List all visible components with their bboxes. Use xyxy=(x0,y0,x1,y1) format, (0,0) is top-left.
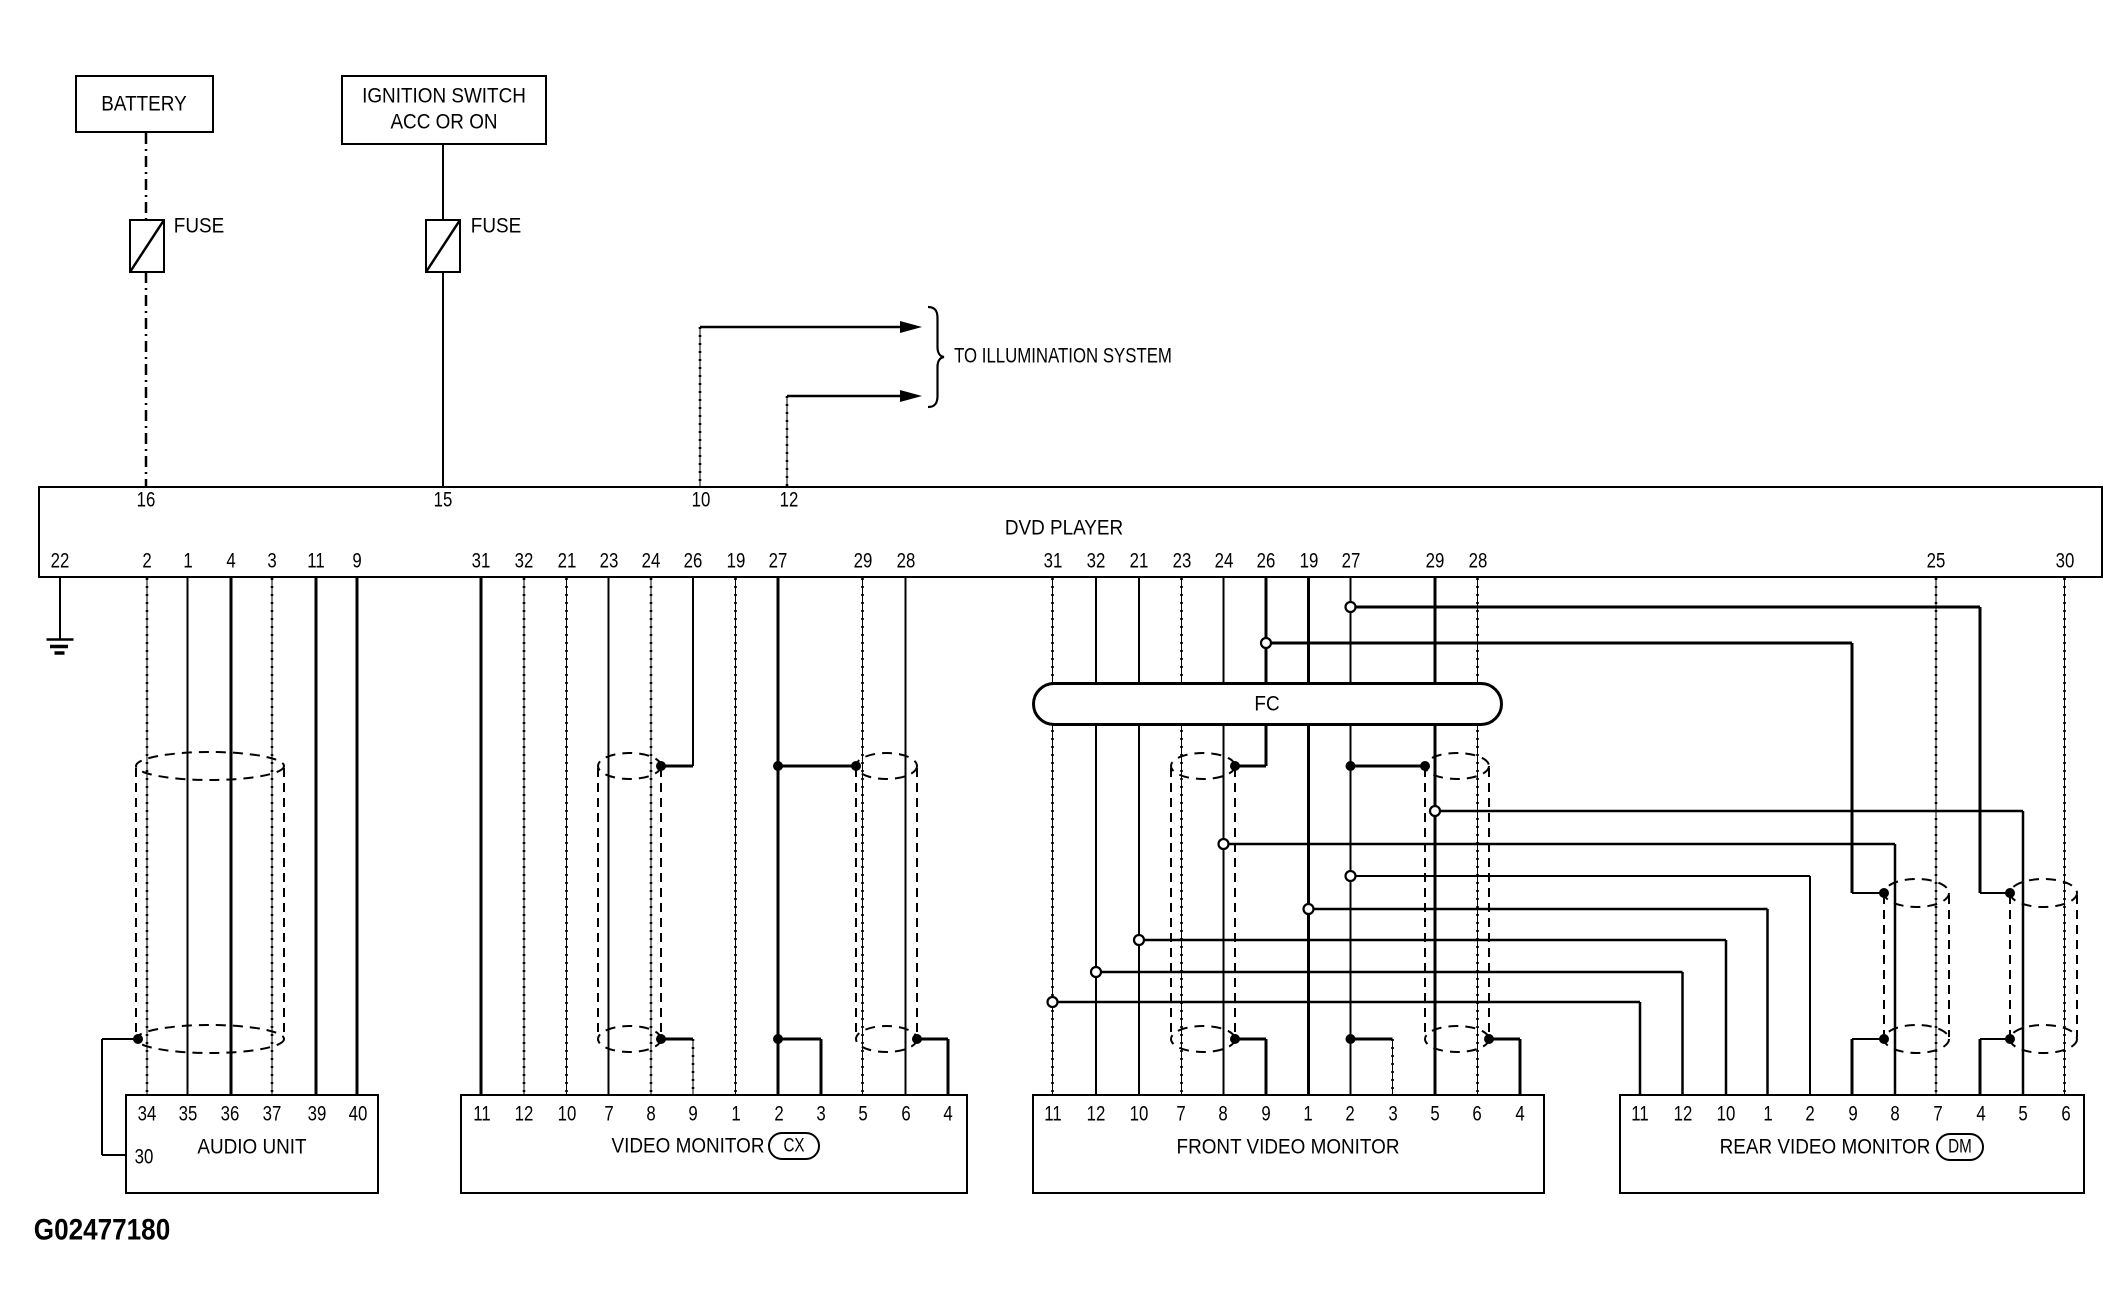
DVD bottom pin 30 xyxy=(2055,551,2074,572)
wire illumination feed 12 xyxy=(786,396,788,486)
audio unit box xyxy=(125,1094,379,1194)
wire front shield top to DVD pin 26 (2nd) xyxy=(1235,765,1266,768)
rear monitor pin 1 xyxy=(1763,1104,1772,1125)
rear monitor pin 4 xyxy=(1976,1104,1985,1125)
wire tap 19 to rear pin 1 xyxy=(1309,908,1768,911)
wire DVD pin 22 to ground xyxy=(59,578,61,639)
connector node on wire 26 (2nd) xyxy=(1261,638,1271,648)
front monitor pin 1 xyxy=(1303,1104,1312,1125)
wire DVD pin 3 to audio pin 37 xyxy=(271,578,273,1094)
DVD bottom pin 32 xyxy=(515,551,534,572)
fuse 2 label xyxy=(471,216,521,237)
video monitor pin 7 xyxy=(604,1104,613,1125)
wire DVD pin 26 (2nd) to front shield node xyxy=(1265,578,1268,766)
wire DVD pin 19 (2nd) to front pin 1 xyxy=(1307,578,1310,1094)
FC bus xyxy=(1032,682,1503,726)
rear monitor pin 12 xyxy=(1673,1104,1692,1125)
wire DVD pin 30 to rear pin 6 xyxy=(2064,578,2066,1094)
DVD bottom pin 23 xyxy=(599,551,618,572)
front monitor pin 2 xyxy=(1345,1104,1354,1125)
connector CX capsule xyxy=(768,1132,820,1160)
front monitor pin 8 xyxy=(1218,1104,1227,1125)
wire DVD pin 25 to rear pin 7 xyxy=(1935,578,1937,1094)
video monitor pin 8 xyxy=(646,1104,655,1125)
shielded cable (rear 5/6) xyxy=(2010,879,2077,1053)
wire tap drop to rear pin 1 xyxy=(1766,909,1769,1094)
rear monitor pin 11 xyxy=(1631,1104,1648,1125)
wire branch on 27 to video pin 3 xyxy=(778,1038,821,1041)
junction video shield top xyxy=(656,761,666,771)
DVD bottom pin 3 xyxy=(267,551,276,572)
DVD bottom pin 24 xyxy=(1214,551,1233,572)
audio unit pin 37 xyxy=(263,1104,282,1125)
arrow to illumination system (from pin 10) xyxy=(700,321,922,333)
audio unit pin 40 xyxy=(349,1104,368,1125)
DVD player label xyxy=(1005,518,1123,539)
shielded cable (front 7/8) xyxy=(1171,753,1235,1052)
DVD bottom pin 11 xyxy=(307,551,324,572)
wire tap 27 to rear shield 2 xyxy=(1351,606,1981,609)
fuse 1 label xyxy=(174,216,224,237)
connector node on wire 32 (2nd) xyxy=(1091,967,1101,977)
DVD bottom pin 27 xyxy=(769,551,788,572)
wire tap 32 to rear pin 12 xyxy=(1096,971,1683,974)
wire branch to video pin 3 xyxy=(820,1039,823,1094)
junction audio shield bottom xyxy=(133,1034,143,1044)
DVD bottom pin 31 xyxy=(472,551,491,572)
wire DVD pin 21 (2nd) to front pin 10 xyxy=(1138,578,1140,1094)
DVD bottom pin 19 xyxy=(1299,551,1318,572)
junction video shield bottom xyxy=(656,1034,666,1044)
wire audio drain to pin 30 xyxy=(102,1154,125,1156)
video monitor pin 10 xyxy=(557,1104,576,1125)
wire DVD pin 23 to video pin 7 xyxy=(608,578,610,1094)
rear video monitor label xyxy=(1720,1137,1931,1158)
DVD bottom pin 9 xyxy=(352,551,361,572)
wire front shield 2 bottom to pin 4 drain xyxy=(1489,1038,1520,1041)
DVD bottom pin 26 xyxy=(1257,551,1276,572)
junction front shield 2 bottom xyxy=(1484,1034,1494,1044)
front video monitor label xyxy=(1177,1137,1400,1158)
DVD bottom pin 28 xyxy=(1468,551,1487,572)
DVD bottom pin 25 xyxy=(1927,551,1946,572)
wire tap drop to rear pin 11 xyxy=(1639,1002,1642,1094)
junction rear shield 2 top xyxy=(2005,888,2015,898)
brace for illumination system xyxy=(928,307,944,407)
wire video shield drain to video pin 9 xyxy=(692,1039,694,1094)
video monitor pin 12 xyxy=(515,1104,534,1125)
wire DVD pin 32 (2nd) to front pin 12 xyxy=(1095,578,1097,1094)
junction on wire 27 (2nd) bottom xyxy=(1346,1034,1356,1044)
wire tap drop to rear pin 12 xyxy=(1681,972,1684,1094)
DVD bottom pin 31 xyxy=(1043,551,1062,572)
DVD top pin 16 xyxy=(136,490,155,511)
front monitor pin 10 xyxy=(1129,1104,1148,1125)
video monitor pin 9 xyxy=(688,1104,697,1125)
wire DVD pin 19 to video pin 1 xyxy=(735,578,737,1094)
to illumination system label xyxy=(954,346,1172,367)
connector node on wire 27 (2nd) xyxy=(1346,602,1356,612)
wire tap drop to rear pin 2 xyxy=(1809,876,1811,1094)
DVD top pin 10 xyxy=(692,490,711,511)
shielded cable (front 5/6) xyxy=(1425,753,1489,1052)
wire front shield bottom to pin 9 drain xyxy=(1235,1038,1266,1041)
wire tap drop to rear pin 8 xyxy=(1894,844,1897,1094)
audio unit pin 34 xyxy=(138,1104,157,1125)
shielded cable (rear 8/7) xyxy=(1884,879,1949,1053)
DVD bottom pin 2 xyxy=(142,551,151,572)
wire tap 26 to rear shield xyxy=(1266,642,1852,645)
DVD bottom pin 19 xyxy=(726,551,745,572)
connector node on wire 27 (2nd) lower xyxy=(1346,871,1356,881)
junction front shield 2 top xyxy=(1420,761,1430,771)
DVD top pin 12 xyxy=(779,490,798,511)
fuse 1 (battery feed) xyxy=(130,220,164,272)
ground xyxy=(47,640,74,654)
DVD bottom pin 1 xyxy=(183,551,192,572)
video monitor pin 11 xyxy=(473,1104,490,1125)
wire rear shield 2 drain to rear pin 4 xyxy=(1979,1039,1982,1094)
wire tap 24 to rear pin 8 xyxy=(1224,843,1896,846)
wire DVD pin 29 to video pin 5 xyxy=(862,578,864,1094)
connector DM capsule xyxy=(1936,1133,1984,1161)
junction on wire 27 top xyxy=(773,761,783,771)
DVD bottom pin 22 xyxy=(51,551,70,572)
rear monitor pin 7 xyxy=(1933,1104,1942,1125)
DVD bottom pin 29 xyxy=(1426,551,1445,572)
rear monitor pin 5 xyxy=(2018,1104,2027,1125)
wire tap 29 to rear pin 5 xyxy=(1435,810,2023,813)
audio unit pin 30 xyxy=(135,1147,154,1168)
wire DVD pin 4 to audio pin 36 xyxy=(230,578,233,1094)
wire tap 31 to rear pin 11 xyxy=(1053,1001,1641,1004)
wire DVD pin 9 to audio pin 40 xyxy=(356,578,359,1094)
wire video shield 2 drain to video pin 4 xyxy=(947,1039,950,1094)
wire rear shield 2 bottom link xyxy=(1980,1038,2010,1040)
connector node on wire 21 (2nd) xyxy=(1134,935,1144,945)
rear monitor pin 8 xyxy=(1890,1104,1899,1125)
wire DVD pin 29 (2nd) to front pin 5 xyxy=(1434,578,1437,1094)
figure number G02477180 xyxy=(34,1220,170,1241)
front monitor pin 3 xyxy=(1388,1104,1397,1125)
connector node on wire 19 (2nd) xyxy=(1304,904,1314,914)
rear video monitor box xyxy=(1619,1094,2085,1194)
wire tap 21 to rear pin 10 xyxy=(1139,939,1726,942)
DVD player box xyxy=(38,486,2103,578)
front monitor pin 6 xyxy=(1472,1104,1481,1125)
video monitor pin 6 xyxy=(901,1104,910,1125)
wire DVD pin 31 to video pin 11 xyxy=(480,578,483,1094)
DVD top pin 15 xyxy=(433,490,452,511)
front monitor pin 5 xyxy=(1430,1104,1439,1125)
wire video shield bottom to pin 9 drain xyxy=(661,1038,693,1041)
DVD bottom pin 23 xyxy=(1172,551,1191,572)
connector node on wire 29 (2nd) xyxy=(1430,806,1440,816)
wire DVD pin 28 (2nd) to front pin 6 xyxy=(1477,578,1479,1094)
DVD bottom pin 29 xyxy=(853,551,872,572)
junction front shield bottom xyxy=(1230,1034,1240,1044)
fuse 2 (ignition feed) xyxy=(426,220,460,272)
wire tap drop to rear pin 10 xyxy=(1725,940,1728,1094)
wire rear shield drain to rear pin 9 xyxy=(1851,1039,1854,1094)
wire rear shield top link xyxy=(1852,892,1884,894)
junction on wire 27 bottom xyxy=(773,1034,783,1044)
wire DVD pin 27 (2nd) to front pin 2 xyxy=(1350,578,1352,1094)
junction front shield top xyxy=(1230,761,1240,771)
front monitor pin 9 xyxy=(1261,1104,1270,1125)
DVD bottom pin 24 xyxy=(642,551,661,572)
wire DVD pin 24 to video pin 8 xyxy=(650,578,652,1094)
wire front shield 2 drain to front pin 4 xyxy=(1519,1039,1522,1094)
wire DVD pin 31 (2nd) to front pin 11 xyxy=(1052,578,1054,1094)
junction video shield 2 bottom xyxy=(912,1034,922,1044)
front monitor pin 7 xyxy=(1176,1104,1185,1125)
DVD bottom pin 28 xyxy=(896,551,915,572)
wire DVD pin 28 to video pin 6 xyxy=(905,578,907,1094)
shielded cable (audio unit) xyxy=(136,752,284,1053)
wire rear shield 2 top drop xyxy=(1979,607,1982,893)
wire rear shield 2 top link xyxy=(1980,892,2010,894)
rear monitor pin 9 xyxy=(1848,1104,1857,1125)
rear monitor pin 10 xyxy=(1717,1104,1736,1125)
connector node on wire 31 (2nd) xyxy=(1048,997,1058,1007)
DVD bottom pin 21 xyxy=(557,551,576,572)
wire rear shield bottom link xyxy=(1852,1038,1884,1040)
wire DVD pin 21 to video pin 10 xyxy=(566,578,568,1094)
video monitor pin 3 xyxy=(816,1104,825,1125)
shielded cable (video 5/6) xyxy=(856,753,917,1052)
DVD bottom pin 27 xyxy=(1341,551,1360,572)
wire video shield 2 bottom to pin 4 drain xyxy=(917,1038,948,1041)
wire fuse 2 to DVD pin 15 xyxy=(442,272,444,486)
front video monitor box xyxy=(1032,1094,1545,1194)
wire DVD pin 1 to audio pin 35 xyxy=(187,578,189,1094)
junction rear shield bottom xyxy=(1879,1034,1889,1044)
wire audio shield bottom drain xyxy=(102,1038,138,1040)
shielded cable (video 7/8) xyxy=(598,753,661,1052)
DVD bottom pin 26 xyxy=(684,551,703,572)
audio unit pin 36 xyxy=(221,1104,240,1125)
FC label xyxy=(1254,694,1279,715)
wire ignition switch to fuse 2 xyxy=(442,145,444,220)
audio unit label xyxy=(197,1137,306,1158)
wire branch on 27 (2nd) to front pin 3 xyxy=(1351,1038,1393,1041)
audio unit pin 35 xyxy=(179,1104,198,1125)
wire tap drop to rear pin 5 xyxy=(2022,811,2025,1094)
arrow to illumination system (from pin 12) xyxy=(787,390,922,402)
battery label xyxy=(101,94,186,115)
wire battery to fuse 1 (dash-dot) xyxy=(145,133,148,486)
video monitor box xyxy=(460,1094,968,1194)
junction on wire 27 (2nd) top xyxy=(1346,761,1356,771)
wire illumination feed 10 xyxy=(699,327,701,486)
wire DVD pin 32 to video pin 12 xyxy=(523,578,525,1094)
wire node on 27 (2nd) to front shield 2 top xyxy=(1351,765,1426,768)
wire audio shield drain drop xyxy=(101,1039,103,1155)
ignition switch label xyxy=(362,86,526,107)
video monitor label xyxy=(612,1136,765,1157)
ignition switch box xyxy=(341,75,547,145)
wire node on 27 to video shield 2 top xyxy=(778,765,856,768)
video monitor pin 2 xyxy=(774,1104,783,1125)
wire branch to front pin 3 xyxy=(1392,1039,1394,1094)
DVD bottom pin 4 xyxy=(226,551,235,572)
wire DVD pin 26 to video shield node xyxy=(692,578,694,766)
wire DVD pin 27 to video pin 2 xyxy=(777,578,780,1094)
front monitor pin 12 xyxy=(1087,1104,1106,1125)
video monitor pin 5 xyxy=(858,1104,867,1125)
rear monitor pin 2 xyxy=(1805,1104,1814,1125)
wire DVD pin 2 to audio pin 34 xyxy=(146,578,148,1094)
front monitor pin 4 xyxy=(1515,1104,1524,1125)
junction rear shield 2 bottom xyxy=(2005,1034,2015,1044)
wire DVD pin 23 (2nd) to front pin 7 xyxy=(1181,578,1183,1094)
DVD bottom pin 21 xyxy=(1130,551,1149,572)
battery box xyxy=(75,75,214,133)
front monitor pin 11 xyxy=(1044,1104,1061,1125)
wire rear shield top drop xyxy=(1851,643,1854,893)
audio unit pin 39 xyxy=(308,1104,327,1125)
rear monitor pin 6 xyxy=(2061,1104,2070,1125)
wire front shield drain to front pin 9 xyxy=(1265,1039,1268,1094)
junction video shield 2 top xyxy=(851,761,861,771)
wire DVD pin 24 (2nd) to front pin 8 xyxy=(1223,578,1225,1094)
junction rear shield top xyxy=(1879,888,1889,898)
video monitor pin 4 xyxy=(943,1104,952,1125)
connector node on wire 24 (2nd) xyxy=(1219,839,1229,849)
wire video shield top to DVD pin 26 xyxy=(661,765,693,768)
wire DVD pin 11 to audio pin 39 xyxy=(315,578,318,1094)
DVD bottom pin 32 xyxy=(1087,551,1106,572)
video monitor pin 1 xyxy=(731,1104,740,1125)
wire tap 27 to rear pin 2 xyxy=(1351,875,1811,877)
